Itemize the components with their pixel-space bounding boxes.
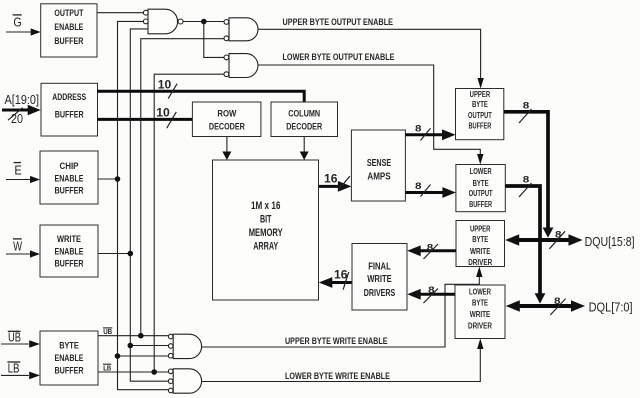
wire 8 bus sense amps to upper byte output buffer bbox=[405, 129, 455, 140]
wire UB input bbox=[1, 340, 40, 348]
node UPPER BYTE WRITE ENABLE label bbox=[285, 336, 388, 346]
node 8 label with slash bbox=[519, 101, 532, 124]
wire lower byte write enable bbox=[202, 339, 484, 382]
svg-text:BUFFER: BUFFER bbox=[468, 121, 491, 131]
svg-text:LOWER: LOWER bbox=[470, 166, 493, 176]
svg-text:LOWER BYTE OUTPUT ENABLE: LOWER BYTE OUTPUT ENABLE bbox=[283, 52, 395, 62]
svg-text:10: 10 bbox=[158, 77, 172, 91]
node DQL[7:0] label bbox=[589, 301, 633, 315]
gate U3 lower byte output enable AND bbox=[224, 54, 258, 78]
wire W net vertical bbox=[130, 29, 168, 381]
node junction E branch bbox=[115, 353, 121, 359]
block SENSE AMPS bbox=[351, 130, 405, 201]
wire lower byte output enable bbox=[258, 65, 484, 165]
block UPPER BYTE OUTPUT BUFFER bbox=[456, 89, 504, 140]
svg-text:WRITE: WRITE bbox=[57, 234, 81, 244]
block OUTPUT ENABLE BUFFER bbox=[41, 4, 97, 57]
node 8 label with slash bbox=[424, 242, 439, 259]
wire A[19:0] bus input bbox=[2, 105, 41, 115]
wire upper byte output enable bbox=[258, 29, 484, 88]
block LOWER BYTE WRITE DRIVER bbox=[455, 285, 505, 339]
svg-text:BUFFER: BUFFER bbox=[55, 186, 84, 196]
wire address bus 10 to row decoder bbox=[97, 118, 192, 121]
wire 16 bus final write drivers to array bbox=[319, 277, 352, 288]
wire output enable buffer to gate G1 bbox=[97, 12, 143, 14]
svg-text:20: 20 bbox=[11, 112, 23, 126]
svg-text:DRIVERS: DRIVERS bbox=[364, 288, 396, 299]
wire 8 bus sense amps to lower byte output buffer bbox=[405, 187, 456, 198]
svg-text:UPPER BYTE OUTPUT ENABLE: UPPER BYTE OUTPUT ENABLE bbox=[283, 17, 394, 27]
node junction W bbox=[128, 251, 134, 257]
block CHIP ENABLE BUFFER bbox=[40, 151, 98, 204]
node junction LB bbox=[151, 369, 157, 375]
wire DQL bus bbox=[506, 300, 585, 312]
svg-text:BUFFER: BUFFER bbox=[55, 110, 84, 120]
svg-text:FINAL: FINAL bbox=[368, 261, 391, 272]
wire 8 bus upper byte write driver to final write drivers bbox=[407, 245, 456, 256]
node junction W branch bbox=[128, 343, 134, 349]
svg-text:ENABLE: ENABLE bbox=[55, 246, 84, 256]
svg-text:OUTPUT: OUTPUT bbox=[469, 188, 494, 198]
wire UB net vertical bbox=[141, 39, 224, 336]
block ROW DECODER bbox=[192, 102, 261, 137]
node 20 width label with slash bbox=[8, 108, 23, 126]
wire E input bbox=[6, 176, 40, 183]
svg-text:DQL[7:0]: DQL[7:0] bbox=[589, 301, 633, 315]
node 16 label write with slash bbox=[334, 268, 349, 290]
block COLUMN DECODER bbox=[271, 102, 338, 137]
svg-text:LOWER: LOWER bbox=[469, 286, 492, 296]
svg-text:8: 8 bbox=[523, 175, 530, 186]
node 8 label with slash bbox=[415, 124, 431, 141]
svg-text:LB: LB bbox=[8, 361, 20, 375]
wire W input bbox=[6, 250, 40, 257]
svg-text:UPPER BYTE WRITE ENABLE: UPPER BYTE WRITE ENABLE bbox=[285, 336, 388, 346]
svg-text:LOWER BYTE WRITE ENABLE: LOWER BYTE WRITE ENABLE bbox=[285, 371, 390, 381]
svg-text:BUFFER: BUFFER bbox=[54, 36, 83, 46]
svg-text:COLUMN: COLUMN bbox=[288, 109, 320, 119]
node 8 label with slash on DQU bbox=[549, 229, 565, 249]
wire DQU bus bbox=[505, 234, 582, 246]
gate U5 lower byte write enable AND bbox=[168, 369, 201, 393]
wire byte enable buffer UB output bbox=[98, 335, 168, 337]
svg-text:ADDRESS: ADDRESS bbox=[52, 92, 86, 102]
node G label bbox=[13, 15, 22, 30]
node 8 label with slash bbox=[415, 181, 431, 197]
svg-text:W: W bbox=[13, 239, 22, 253]
svg-text:AMPS: AMPS bbox=[367, 172, 391, 183]
svg-text:SENSE: SENSE bbox=[367, 158, 392, 169]
wire LB input bbox=[1, 372, 40, 380]
svg-text:BYTE: BYTE bbox=[59, 341, 79, 351]
wire address bus 10 to column decoder bbox=[97, 91, 304, 102]
svg-text:16: 16 bbox=[324, 172, 338, 186]
svg-text:DRIVER: DRIVER bbox=[468, 320, 493, 330]
node UB label bbox=[8, 331, 21, 345]
block 1M x 16 BIT MEMORY ARRAY bbox=[213, 160, 319, 300]
gate U4 upper byte write enable AND bbox=[168, 334, 201, 358]
svg-text:8: 8 bbox=[415, 181, 422, 192]
wire G input bbox=[6, 28, 41, 35]
block UPPER BYTE WRITE DRIVER bbox=[456, 221, 505, 267]
node 8 label with slash on DQL bbox=[550, 296, 565, 315]
svg-text:8: 8 bbox=[428, 285, 435, 296]
wire byte enable buffer LB output bbox=[98, 371, 168, 373]
svg-text:UPPER: UPPER bbox=[470, 89, 491, 99]
svg-text:ROW: ROW bbox=[217, 109, 236, 119]
svg-text:BYTE: BYTE bbox=[472, 99, 488, 109]
wire column decoder to array bbox=[300, 137, 309, 161]
gate U1 output enable NAND bbox=[143, 9, 183, 34]
svg-text:A[19:0]: A[19:0] bbox=[5, 93, 40, 107]
node LB label bbox=[7, 361, 20, 375]
node W label bbox=[13, 239, 22, 253]
svg-text:DECODER: DECODER bbox=[209, 122, 245, 132]
svg-text:ENABLE: ENABLE bbox=[55, 353, 84, 363]
svg-text:ENABLE: ENABLE bbox=[55, 173, 84, 183]
wire 8 bus lower byte write driver to final write drivers bbox=[407, 289, 455, 300]
svg-text:BYTE: BYTE bbox=[472, 298, 488, 308]
node 16 label sense with slash bbox=[324, 172, 350, 191]
wire drop to gate U3 bbox=[204, 22, 224, 58]
wire chip enable buffer output bbox=[98, 178, 118, 180]
wire 8 bus lower byte output buffer to DQL bbox=[505, 186, 545, 304]
svg-text:BYTE: BYTE bbox=[473, 178, 489, 188]
svg-text:OUTPUT: OUTPUT bbox=[54, 8, 83, 18]
wire 8 bus upper byte output buffer to DQU bbox=[504, 112, 554, 238]
wire W branch to lower gate A bbox=[130, 345, 168, 347]
block WRITE ENABLE BUFFER bbox=[40, 225, 98, 277]
wire upper byte write enable bbox=[202, 267, 483, 348]
svg-text:E: E bbox=[14, 163, 22, 177]
svg-text:OUTPUT: OUTPUT bbox=[468, 110, 492, 120]
node E label bbox=[14, 163, 22, 178]
svg-text:WRITE: WRITE bbox=[367, 274, 392, 285]
wire write enable buffer output bbox=[98, 253, 130, 255]
wire E net vertical bbox=[118, 21, 169, 389]
svg-text:BUFFER: BUFFER bbox=[55, 365, 84, 375]
wire LB net vertical bbox=[154, 74, 224, 372]
svg-text:ENABLE: ENABLE bbox=[54, 22, 83, 32]
block FINAL WRITE DRIVERS bbox=[352, 244, 407, 311]
wire E branch to lower gate A bbox=[118, 355, 169, 357]
wire 16 bus array to sense amps bbox=[319, 181, 352, 192]
svg-text:DECODER: DECODER bbox=[286, 122, 322, 132]
node 8 label with slash bbox=[424, 285, 439, 303]
svg-text:DQU[15:8]: DQU[15:8] bbox=[585, 235, 635, 249]
node UB small label bbox=[103, 327, 113, 336]
svg-text:1M x 16: 1M x 16 bbox=[251, 200, 281, 212]
svg-text:G: G bbox=[13, 15, 21, 29]
gate U2 upper byte output enable AND bbox=[224, 18, 258, 41]
svg-text:8: 8 bbox=[523, 101, 530, 112]
svg-text:ARRAY: ARRAY bbox=[253, 241, 278, 253]
node LOWER BYTE OUTPUT ENABLE label bbox=[283, 52, 395, 62]
block LOWER BYTE OUTPUT BUFFER bbox=[456, 165, 505, 212]
wire row decoder to array bbox=[222, 137, 231, 161]
node 10 label lower with slash bbox=[156, 106, 176, 129]
node junction UB bbox=[138, 333, 144, 339]
node junction E bbox=[115, 176, 121, 182]
node A[19:0] label bbox=[5, 93, 40, 107]
svg-text:WRITE: WRITE bbox=[470, 309, 491, 319]
svg-text:WRITE: WRITE bbox=[470, 246, 491, 256]
node 8 label with slash bbox=[519, 175, 532, 197]
svg-text:UPPER: UPPER bbox=[470, 224, 491, 234]
svg-text:8: 8 bbox=[415, 124, 422, 135]
svg-text:BUFFER: BUFFER bbox=[55, 259, 84, 269]
svg-text:MEMORY: MEMORY bbox=[249, 227, 283, 239]
node junction gate U1 output bbox=[201, 19, 207, 25]
svg-text:DRIVER: DRIVER bbox=[468, 257, 493, 267]
svg-text:UB: UB bbox=[8, 331, 21, 345]
node LB small label bbox=[103, 363, 112, 372]
svg-text:10: 10 bbox=[156, 106, 170, 120]
node 10 label upper with slash bbox=[158, 77, 177, 98]
svg-text:BUFFER: BUFFER bbox=[469, 199, 493, 209]
node UPPER BYTE OUTPUT ENABLE label bbox=[283, 17, 394, 27]
svg-text:CHIP: CHIP bbox=[60, 161, 79, 171]
wire gate U1 output bbox=[183, 21, 224, 23]
block ADDRESS BUFFER bbox=[41, 83, 98, 136]
node LOWER BYTE WRITE ENABLE label bbox=[285, 371, 390, 381]
svg-text:BYTE: BYTE bbox=[472, 234, 488, 244]
svg-text:BIT: BIT bbox=[260, 214, 272, 226]
block BYTE ENABLE BUFFER bbox=[40, 331, 98, 385]
node DQU[15:8] label bbox=[585, 235, 635, 249]
